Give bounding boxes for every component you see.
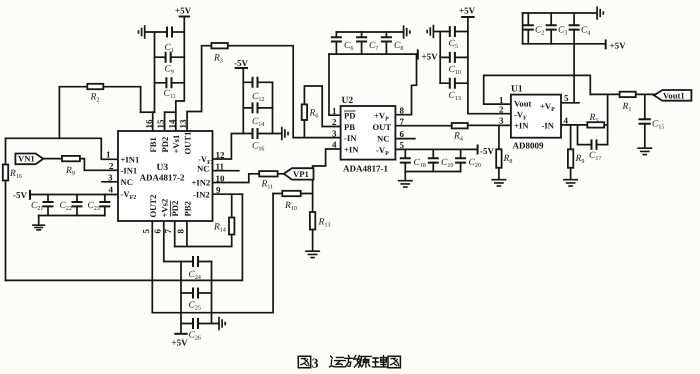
svg-text:3: 3 xyxy=(312,355,319,370)
svg-text:-5V: -5V xyxy=(234,58,248,68)
wire C18-C20 bottom rail xyxy=(405,171,460,173)
wire pin6 +Vs2 drop xyxy=(163,221,165,262)
svg-text:PD: PD xyxy=(344,111,355,121)
wire ground stem below rail xyxy=(38,216,40,226)
wire C5 row leads xyxy=(434,31,468,33)
wire OUT2 drop to R10 line xyxy=(152,194,273,313)
wire R11 to VP1 xyxy=(278,173,284,175)
svg-text:9: 9 xyxy=(216,185,221,195)
wire C2-C4 bottom rail xyxy=(523,43,605,45)
svg-text:1: 1 xyxy=(499,95,504,105)
wire C21-C23 bottom rail xyxy=(39,215,105,217)
wire pin9 junction to R14 xyxy=(231,194,233,217)
wire R16 top lead xyxy=(5,138,7,164)
wire R2 drop to FB1 node xyxy=(140,87,142,113)
wire R5 right lead xyxy=(604,124,607,126)
svg-text:+5V: +5V xyxy=(172,338,189,348)
wire ground lead to C1 xyxy=(145,31,167,33)
svg-text:1: 1 xyxy=(106,150,111,160)
svg-text:NC: NC xyxy=(197,164,209,174)
resistor R11 xyxy=(259,171,277,176)
capacitor C3 plates xyxy=(546,25,557,29)
svg-text:-5V: -5V xyxy=(480,146,494,156)
IC U3 ADA4817-2 box xyxy=(118,131,213,221)
wire R8 to ground xyxy=(498,168,500,180)
svg-text:PD2: PD2 xyxy=(160,137,170,153)
resistor R9b xyxy=(568,149,573,168)
svg-text:2: 2 xyxy=(109,161,114,171)
wire pin12 to -5V ladder xyxy=(213,134,244,160)
svg-text:-IN1: -IN1 xyxy=(121,165,138,175)
wire C10 row leads xyxy=(440,56,468,58)
capacitor C19 plates xyxy=(428,158,439,162)
wire +5V feed down to pin5 xyxy=(573,44,575,103)
wire C21 leads xyxy=(47,195,49,216)
wire U2 top caps top rail xyxy=(336,31,403,33)
svg-text:FB1: FB1 xyxy=(148,137,158,152)
resistor R9 xyxy=(62,156,80,161)
svg-text:12: 12 xyxy=(216,150,226,160)
resistor R8 xyxy=(496,149,501,168)
resistor R16 xyxy=(3,165,8,181)
resistor R6 xyxy=(302,104,307,120)
capacitor C25 plates xyxy=(193,288,198,299)
wire VN1 to R9 xyxy=(43,158,62,160)
svg-text:+Vs2: +Vs2 xyxy=(159,199,169,218)
svg-text:13: 13 xyxy=(178,119,188,129)
resistor R10 xyxy=(282,191,300,196)
svg-text:16: 16 xyxy=(144,119,154,129)
svg-text:4: 4 xyxy=(109,185,114,195)
power +5V bar top-left xyxy=(179,16,190,18)
svg-text:OUT2: OUT2 xyxy=(148,195,158,218)
svg-text:ADA4817-1: ADA4817-1 xyxy=(343,164,388,174)
wire pin4 -VF2 rail with -5V xyxy=(30,194,118,196)
wire R2 right lead xyxy=(103,86,140,88)
power +5V bar below C26 xyxy=(174,333,187,335)
wire C8 leads xyxy=(385,32,387,54)
wire pin15 tie to +Vs1 column xyxy=(165,111,176,113)
capacitor C17 plates xyxy=(592,139,597,150)
wire R2 left lead down to +IN1 rail xyxy=(59,87,87,139)
wire C14 row leads xyxy=(243,107,272,109)
wire C22 leads xyxy=(76,195,78,216)
wire pin10 to R11 xyxy=(213,174,260,183)
svg-text:4: 4 xyxy=(332,140,337,150)
svg-text:U3: U3 xyxy=(157,163,169,173)
ground right-facing at C16 xyxy=(282,127,288,140)
resistor R5 xyxy=(587,122,604,127)
wire C25 row leads xyxy=(181,292,212,294)
wire C4 leads xyxy=(573,13,575,44)
connector Vout1 flag xyxy=(654,90,692,101)
capacitor C10 plates xyxy=(450,52,455,63)
wire U2 PD pin1 to +5V rail xyxy=(329,54,341,115)
wire R9 to -IN1 pin2 xyxy=(80,159,118,171)
wire R1 to Vout1 xyxy=(636,93,654,95)
ground below R8 xyxy=(491,180,506,186)
wire pin3 NC stub xyxy=(102,181,118,183)
capacitor C7 plates xyxy=(356,37,367,41)
wire R3 right to U2 -IN xyxy=(228,46,293,138)
resistor R2 xyxy=(87,84,103,89)
svg-text:VP1: VP1 xyxy=(293,169,309,179)
wire pin7 drop xyxy=(174,221,176,247)
svg-text:+Vs1: +Vs1 xyxy=(171,135,181,154)
svg-text:8: 8 xyxy=(400,105,405,115)
wire R13 bottom stem xyxy=(312,230,314,252)
capacitor C12 plates xyxy=(253,77,258,88)
svg-text:VN1: VN1 xyxy=(18,154,35,164)
wire R9b drop xyxy=(570,125,572,149)
capacitor C18 plates xyxy=(400,158,411,162)
svg-text:-IN2: -IN2 xyxy=(193,190,210,200)
power +5V tick at C2C4 rail xyxy=(605,39,607,49)
wire pin9 row xyxy=(213,193,243,195)
power -5V tick at C20 rail xyxy=(477,145,479,155)
wire R4 right to U1 +IN xyxy=(468,124,511,126)
wire C11 row leads xyxy=(155,82,185,84)
capacitor C14 plates xyxy=(253,102,258,113)
svg-text:Vout1: Vout1 xyxy=(663,90,685,100)
svg-text:AD8009: AD8009 xyxy=(513,141,544,151)
wire U3 OUT1 to R3 xyxy=(187,46,211,131)
ground below R13 xyxy=(305,251,320,257)
svg-text:-IN: -IN xyxy=(542,121,555,131)
power -5V tick at C21 rail xyxy=(29,190,31,200)
ground below C15 xyxy=(637,148,652,154)
wire C20 leads xyxy=(460,149,462,171)
capacitor C5 plates xyxy=(450,26,455,37)
wire C17 loop xyxy=(578,125,608,145)
wire R13 top stem xyxy=(312,194,314,213)
wire C5 ladder right rail to U1 pin2 xyxy=(468,17,511,114)
svg-text:Vout: Vout xyxy=(514,99,531,109)
svg-text:15: 15 xyxy=(156,119,166,129)
svg-text:+IN: +IN xyxy=(344,145,359,155)
svg-text:10: 10 xyxy=(216,173,226,183)
svg-text:4: 4 xyxy=(564,116,569,126)
resistor R1 xyxy=(620,92,636,97)
wire C9 row leads xyxy=(155,56,185,58)
svg-text:+5V: +5V xyxy=(610,41,627,51)
capacitor C26 plates xyxy=(193,318,198,329)
caption 图 second xyxy=(388,356,400,368)
svg-text:5: 5 xyxy=(400,140,405,150)
svg-text:NC: NC xyxy=(121,177,133,187)
capacitor C24 plates xyxy=(193,256,198,267)
wire FB1 node horizontal xyxy=(141,111,155,113)
wire U2 -IN row xyxy=(293,137,340,139)
wire C24 ladder left rail to +5V xyxy=(180,262,182,334)
svg-text:PB2: PB2 xyxy=(182,201,192,216)
svg-text:5: 5 xyxy=(564,93,569,103)
wire pin16 stub xyxy=(152,112,154,131)
svg-text:+5V: +5V xyxy=(459,6,476,16)
svg-text:3: 3 xyxy=(108,172,113,182)
capacitor C6 plates xyxy=(331,37,342,41)
wire -5V ladder right rail xyxy=(272,82,274,133)
wire pin5 OUT2 drop xyxy=(151,221,153,280)
svg-text:PD2: PD2 xyxy=(170,201,180,217)
wire C2-C4 left closure xyxy=(522,13,524,44)
ground left-facing at C1 xyxy=(139,25,145,39)
connector VP1 flag xyxy=(284,168,314,179)
capacitor C20 plates xyxy=(455,158,466,162)
wire C19 leads xyxy=(432,149,434,171)
capacitor C4 plates xyxy=(569,25,580,29)
wire C1 right lead xyxy=(173,31,185,33)
resistor R4 xyxy=(452,123,468,128)
svg-text:+IN1: +IN1 xyxy=(121,154,140,164)
wire pin8 drop xyxy=(186,221,188,247)
ground right-facing at C8 rail xyxy=(404,25,410,38)
svg-text:3: 3 xyxy=(332,128,337,138)
svg-text:ADA4817-2: ADA4817-2 xyxy=(140,173,185,183)
caption 图3 xyxy=(298,356,310,368)
ground right-facing at C26 xyxy=(219,317,225,330)
svg-text:+5V: +5V xyxy=(422,52,439,62)
svg-text:5: 5 xyxy=(141,229,151,234)
wire +5V rail step down to U2 pin8 xyxy=(395,54,416,115)
wire OUT2 long bottom line xyxy=(6,194,243,280)
wire cap ladder left rail (FB1 node) xyxy=(154,32,156,112)
capacitor C13 plates xyxy=(450,78,455,89)
svg-text:7: 7 xyxy=(400,117,405,127)
wire C3 leads xyxy=(550,13,552,44)
resistor R3 xyxy=(211,43,227,48)
capacitor C15 plates xyxy=(639,119,651,123)
svg-text:+IN: +IN xyxy=(514,121,529,131)
wire pin15 stub xyxy=(164,112,166,131)
wire R16 bottom lead down to OUT2 line xyxy=(5,181,7,281)
svg-text:2: 2 xyxy=(332,117,337,127)
wire C12 row leads xyxy=(243,81,272,83)
wire R6 top loop to U2 PB xyxy=(304,86,340,127)
svg-text:1: 1 xyxy=(332,106,337,116)
wire output line to R1 xyxy=(590,93,619,95)
wire pin11 NC stub xyxy=(213,170,239,172)
connector VN1 flag xyxy=(15,154,43,165)
wire U2 NC stub xyxy=(395,138,414,140)
wire C15 bottom stem to ground xyxy=(644,124,646,148)
svg-text:11: 11 xyxy=(216,161,225,171)
wire C18 leads xyxy=(404,149,406,171)
wire R10 node up to U2 +IN xyxy=(313,149,341,194)
capacitor C23 plates xyxy=(99,202,110,206)
ground below R9b xyxy=(563,180,578,186)
capacitor C2 plates xyxy=(523,25,534,29)
wire C13 row leads xyxy=(440,82,468,84)
capacitor C11 plates xyxy=(166,77,171,88)
svg-text:+5V: +5V xyxy=(175,6,192,16)
wire C26 row leads xyxy=(181,323,219,325)
svg-text:8: 8 xyxy=(175,229,185,234)
wire +5V rail to U3 +Vs1 pin14 xyxy=(176,17,185,132)
power +5V bar top C5 ladder xyxy=(461,16,474,18)
wire U1 pin1 feedback loop xyxy=(484,75,591,104)
svg-text:2: 2 xyxy=(499,104,504,114)
svg-text:U2: U2 xyxy=(342,96,354,106)
wire C2-C4 top rail xyxy=(523,12,597,14)
svg-text:U1: U1 xyxy=(511,85,523,95)
caption 理 strokes xyxy=(372,356,387,367)
wire -5V stem left rail xyxy=(242,68,244,134)
wire R8 drop xyxy=(498,125,500,149)
wire U2 top caps bottom rail xyxy=(329,53,417,55)
svg-text:-5V: -5V xyxy=(13,190,27,200)
ground below C21 group xyxy=(32,225,45,230)
wire R6 bottom stem xyxy=(303,120,305,138)
svg-text:OUT: OUT xyxy=(373,122,392,132)
wire C7 leads xyxy=(361,32,363,54)
svg-text:14: 14 xyxy=(167,119,177,129)
wire C15 top stem xyxy=(644,94,646,119)
wire C23 leads xyxy=(104,195,106,216)
svg-text:+IN2: +IN2 xyxy=(192,178,211,188)
power +5V tick between rails xyxy=(417,49,419,59)
capacitor C21 plates xyxy=(43,202,54,206)
svg-text:3: 3 xyxy=(499,116,504,126)
ground below C18 group xyxy=(398,181,413,187)
capacitor C1 plates xyxy=(167,27,172,38)
wire R14 bottom to pins7-8 rail xyxy=(175,235,232,247)
wire C16 row leads xyxy=(243,133,281,135)
svg-text:6: 6 xyxy=(400,129,405,139)
wire C24 row leads xyxy=(164,261,212,263)
wire U1 pin5 row xyxy=(561,102,579,104)
wire C24 ladder right rail xyxy=(211,262,213,324)
wire U1 pin4 row to R5 xyxy=(561,124,587,126)
caption 放 strokes xyxy=(345,355,362,367)
wire C5 ladder left rail xyxy=(439,32,441,84)
capacitor C16 plates xyxy=(253,128,258,139)
ground left-facing at C5 xyxy=(427,25,433,38)
wire R9b to ground xyxy=(570,168,572,180)
svg-text:-IN: -IN xyxy=(344,133,357,143)
resistor R14 xyxy=(229,218,234,235)
wire output node vertical xyxy=(607,94,609,144)
caption 原 strokes xyxy=(359,356,372,367)
wire +IN1 rail horizontal xyxy=(6,138,119,159)
wire U2 OUT row to R4 xyxy=(395,125,451,127)
wire U2 -Vp row to -5V xyxy=(395,148,477,150)
resistor R13 xyxy=(310,212,315,230)
IC U1 AD8009 box xyxy=(511,95,561,138)
svg-text:7: 7 xyxy=(163,229,173,234)
wire R10 leads xyxy=(273,193,313,195)
power -5V bar mid xyxy=(235,67,248,69)
caption 运 strokes xyxy=(329,356,345,367)
svg-text:NC: NC xyxy=(377,134,389,144)
wire ground stem below C18 xyxy=(404,172,406,181)
IC U2 ADA4817-1 box xyxy=(341,106,396,160)
svg-text:OUT1: OUT1 xyxy=(183,132,193,155)
ground right-facing at C4 rail xyxy=(597,6,603,19)
wire C6 leads xyxy=(335,32,337,54)
svg-text:PB: PB xyxy=(344,122,355,132)
wire C2 leads xyxy=(527,13,529,44)
capacitor C9 plates xyxy=(166,52,171,63)
capacitor C8 plates xyxy=(381,37,392,41)
capacitor C22 plates xyxy=(72,202,83,206)
wire U1 pin3 row xyxy=(461,124,511,126)
svg-text:6: 6 xyxy=(152,229,162,234)
